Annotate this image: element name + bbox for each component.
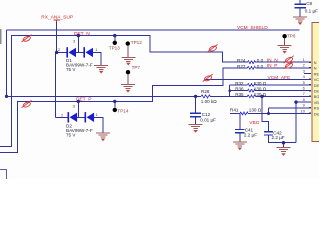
wire pin 8 row	[296, 101, 311, 103]
svg-text:2.2 µF: 2.2 µF	[244, 133, 257, 138]
svg-text:130 Ω: 130 Ω	[254, 87, 267, 92]
test point TP12	[126, 41, 130, 45]
test point TP14 stub	[114, 101, 116, 107]
svg-text:R35: R35	[235, 92, 244, 97]
svg-text:DE: DE	[314, 83, 319, 88]
svg-text:2.2 µF: 2.2 µF	[272, 135, 285, 140]
svg-text:TP14: TP14	[117, 109, 128, 114]
svg-text:VCM_AFE: VCM_AFE	[268, 75, 291, 81]
svg-text:130 Ω: 130 Ω	[254, 81, 267, 86]
off-page connector IN_P	[284, 61, 294, 69]
svg-text:RX_ANA_SUP: RX_ANA_SUP	[41, 15, 73, 21]
off-page connector VCM_AFE	[203, 74, 213, 82]
svg-text:10: 10	[301, 108, 306, 113]
capacitor C9 plates	[295, 4, 306, 7]
wire DET_P net (from lower-left edge up and across)	[0, 68, 311, 152]
svg-text:DE: DE	[314, 111, 319, 116]
svg-text:0.1 µF: 0.1 µF	[305, 9, 318, 14]
wire VCM_SHIELD top horizontal	[7, 29, 300, 31]
off-page connector IN_N	[284, 56, 294, 64]
svg-text:RS: RS	[314, 106, 319, 111]
svg-text:0.0: 0.0	[257, 64, 264, 69]
wire pin 9 branch down to R41 row	[268, 108, 270, 114]
wire ground stub under C42	[283, 143, 285, 148]
resistor R36 zigzag	[247, 89, 255, 92]
resistor R32 zigzag	[247, 84, 255, 87]
svg-text:R24: R24	[237, 58, 246, 63]
wire VCM_AFE row to pin 4	[205, 78, 311, 80]
junction D2 tap on DET_P	[77, 100, 80, 103]
capacitor C42 plates	[264, 132, 273, 135]
svg-text:R36: R36	[235, 87, 244, 92]
diode D2 second half	[85, 112, 87, 122]
wire C12 lower stem	[195, 118, 197, 125]
wire pin 8 branch down to C42 bottom	[295, 102, 297, 143]
capacitor C41 plates	[235, 130, 244, 133]
wire C41 lower stem	[239, 133, 241, 142]
svg-text:DE: DE	[314, 89, 319, 94]
test point TP7	[126, 70, 130, 74]
test point TP7 stem	[127, 74, 129, 84]
capacitor C9 stem from top edge	[299, 0, 301, 4]
test point TP13	[113, 41, 117, 45]
sheet edge tick left	[0, 29, 1, 44]
wire R36 row to pin 6	[230, 90, 312, 92]
svg-text:TP13: TP13	[109, 46, 120, 51]
ground below D2	[96, 133, 110, 141]
diode D2 first half	[68, 112, 70, 122]
junction C12 tap	[194, 95, 197, 98]
svg-text:VC: VC	[314, 77, 319, 82]
svg-text:R32: R32	[235, 81, 244, 86]
svg-text:VBG: VBG	[249, 120, 259, 126]
test point TP6 stem	[284, 38, 286, 45]
wire RX_ANA_SUP vertical down to D1/D2	[55, 22, 56, 118]
pin end ticks at IC body	[309, 61, 311, 114]
resistor R27 zigzag	[247, 67, 255, 70]
wire D2 center tap	[77, 101, 79, 117]
pin names inside IC	[314, 60, 320, 116]
ground below TP12	[121, 57, 135, 65]
ground below C12	[189, 125, 203, 133]
diode D1 first half	[66, 47, 68, 57]
wire R41 / VBG row to pin 10	[230, 113, 311, 115]
junction pin8 branch	[294, 100, 297, 103]
resistor R24 zigzag	[247, 61, 255, 64]
wire C12 branch from VCM row	[195, 96, 197, 113]
resistor R35 zigzag	[247, 95, 255, 98]
svg-text:R41: R41	[230, 107, 239, 112]
svg-text:IN_N: IN_N	[267, 58, 278, 64]
junction TP13 on DET_N	[113, 34, 116, 37]
svg-text:75 V: 75 V	[66, 132, 76, 137]
wire D1 center tap	[77, 36, 79, 53]
test point TP6	[282, 34, 286, 38]
wire VBG branch down to C41	[239, 114, 241, 129]
svg-text:R27: R27	[237, 64, 246, 69]
svg-text:BG: BG	[314, 94, 319, 99]
diode D1 (dual BAV99W) row wires	[57, 52, 101, 65]
junction pin9 branch on R41 row	[267, 112, 270, 115]
junction D1 tap on DET_N	[77, 34, 80, 37]
svg-text:C41: C41	[245, 127, 254, 132]
wire DET_N net (from lower-left edge up and across)	[0, 36, 311, 147]
wire C42 lower stem to ground row	[268, 135, 296, 143]
ground below TP6	[278, 45, 292, 53]
svg-text:IN_P: IN_P	[267, 63, 278, 69]
svg-text:TP12: TP12	[131, 40, 142, 45]
wire pin 3 stub	[304, 73, 311, 75]
wire R32 row to pin 5	[230, 84, 312, 86]
svg-text:0.01 µF: 0.01 µF	[200, 117, 216, 122]
svg-text:TP6: TP6	[287, 34, 296, 39]
ground below C42	[277, 148, 291, 156]
wire VCM_SHIELD left vertical	[6, 30, 8, 96]
junction C42 branch on pin7 row	[260, 95, 263, 98]
test point TP12 stem	[127, 46, 129, 57]
wire VCM / R28 / R35 row to pin 7	[7, 95, 312, 97]
svg-text:RE: RE	[314, 71, 319, 76]
resistor R41 zigzag	[240, 112, 248, 115]
junction TP14 on DET_P	[113, 100, 116, 103]
diode D1 second half	[83, 47, 85, 57]
wire C42 net branch from pin7 row	[262, 96, 268, 131]
svg-text:C9: C9	[306, 1, 312, 6]
test point TP14	[113, 108, 117, 112]
svg-text:75 V: 75 V	[66, 67, 76, 72]
off-page connector DET_P left	[22, 100, 32, 108]
junction D1 pin2 / supply	[55, 51, 58, 54]
junction R36 bus	[228, 89, 231, 92]
power symbol RX_ANA_SUP	[54, 20, 61, 22]
svg-text:0.0: 0.0	[257, 58, 264, 63]
wire C9 lower stem	[299, 8, 301, 16]
ground below C9	[293, 17, 307, 25]
junction ground under C42	[282, 141, 285, 144]
off-page connector DET_N mid jog	[208, 44, 218, 52]
ground below C41	[233, 142, 247, 150]
svg-text:130 Ω: 130 Ω	[254, 92, 267, 97]
svg-text:130 Ω: 130 Ω	[249, 107, 262, 112]
svg-text:VB: VB	[314, 100, 319, 105]
svg-text:VCM_SHIELD: VCM_SHIELD	[237, 25, 268, 31]
ground below D1	[94, 65, 108, 73]
capacitor C12 plates	[190, 113, 201, 116]
next block corner bottom-left	[0, 170, 6, 179]
svg-text:TP7: TP7	[132, 65, 141, 70]
svg-text:R28: R28	[201, 89, 210, 94]
svg-text:DET_N: DET_N	[74, 31, 90, 37]
wire pin 9 row	[269, 107, 312, 109]
off-page connector DET_N left	[22, 35, 32, 43]
svg-text:1.00 kΩ: 1.00 kΩ	[201, 99, 218, 104]
junction VCM corner left	[5, 95, 8, 98]
svg-text:N: N	[314, 66, 317, 71]
svg-text:N: N	[314, 60, 317, 65]
IC U? yellow body	[312, 22, 320, 141]
diode D2 (dual BAV99W) row wires	[55, 117, 103, 133]
wire resistor bus vertical	[229, 85, 231, 96]
ground below TP7	[121, 84, 135, 92]
resistor R28 zigzag	[201, 95, 210, 98]
test point TP13 stub	[114, 36, 116, 41]
